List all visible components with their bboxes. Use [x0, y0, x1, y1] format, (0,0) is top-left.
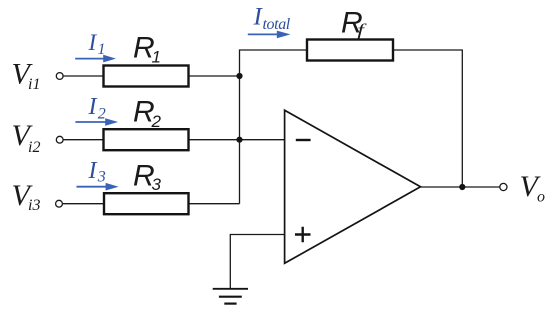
svg-text:total: total — [263, 16, 291, 33]
wire: op-amp output to terminal — [421, 186, 500, 188]
current arrow I1 — [75, 55, 116, 63]
current arrow Itotal — [248, 31, 291, 39]
node B: junction of R2 with summing bus — [236, 137, 242, 143]
svg-text:I: I — [88, 94, 98, 120]
input terminal 1 — [56, 73, 63, 80]
resistor R3 — [104, 193, 189, 214]
label Vo — [520, 170, 546, 206]
label Vi3 — [12, 179, 41, 214]
svg-text:3: 3 — [97, 169, 106, 186]
op-amp inverting pin (minus sign) — [296, 139, 311, 141]
svg-text:1: 1 — [98, 41, 106, 58]
node A: junction of R1 with summing bus — [236, 73, 242, 79]
op-amp non-inverting pin (plus sign) — [295, 227, 311, 242]
node C: output junction with feedback branch — [459, 184, 465, 190]
wire: input 1 from terminal to R1 — [63, 75, 104, 77]
svg-text:f: f — [357, 22, 367, 40]
label Vi2 — [12, 119, 41, 156]
current arrow I3 — [77, 183, 119, 191]
wire: R2 output through node to op-amp inverting input — [189, 139, 285, 141]
label R2 — [133, 96, 162, 131]
wire: input 3 from terminal to R3 — [63, 203, 104, 205]
current arrow I2 — [75, 118, 118, 126]
resistor R1 — [104, 66, 189, 87]
input terminal 2 — [56, 136, 63, 143]
output terminal — [500, 183, 507, 190]
label R1 — [133, 32, 161, 67]
ground — [213, 289, 248, 304]
label Itotal — [253, 4, 291, 33]
wire: vertical summing node bus — [240, 50, 308, 204]
svg-text:1: 1 — [152, 47, 161, 66]
label Rf — [341, 6, 368, 39]
svg-text:I: I — [88, 158, 98, 184]
svg-text:2: 2 — [98, 106, 106, 123]
svg-text:2: 2 — [151, 112, 162, 131]
label I2 — [88, 94, 106, 122]
wire: non-inverting input to ground — [230, 235, 284, 289]
wire: R1 output to summing node — [189, 75, 240, 77]
label I1 — [88, 30, 106, 58]
resistor Rf — [307, 40, 393, 61]
wire: input 2 from terminal to R2 — [63, 139, 104, 141]
svg-text:i2: i2 — [28, 139, 40, 156]
wire: Rf right lead and vertical drop to output — [393, 50, 462, 187]
svg-text:3: 3 — [152, 175, 162, 194]
svg-text:i3: i3 — [28, 197, 40, 214]
svg-text:o: o — [537, 189, 545, 206]
input terminal 3 — [56, 200, 63, 207]
label Vi1 — [12, 57, 41, 93]
label R3 — [133, 160, 162, 195]
label I3 — [88, 158, 106, 186]
op-amp U1 — [285, 110, 421, 263]
wire: R3 output to summing branch — [189, 203, 240, 205]
svg-text:I: I — [88, 30, 98, 55]
svg-text:i1: i1 — [28, 76, 40, 93]
resistor R2 — [104, 129, 189, 150]
